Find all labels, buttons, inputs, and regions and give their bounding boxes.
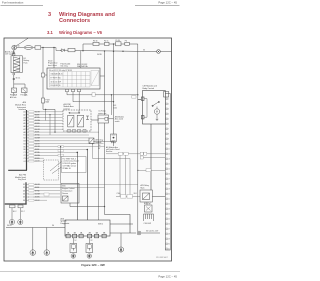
svg-text:box & front: box & front xyxy=(48,64,57,67)
wire xyxy=(109,43,116,45)
svg-text:30 WH: 30 WH xyxy=(35,155,41,157)
svg-text:motor unit: motor unit xyxy=(98,112,106,115)
svg-text:Page 12C – 45: Page 12C – 45 xyxy=(158,1,177,5)
wire code labels mid xyxy=(92,93,136,99)
relay A29b box right xyxy=(140,190,165,202)
wire C10 to ground xyxy=(11,208,13,220)
ground G12 xyxy=(30,250,36,256)
wire F30 down xyxy=(13,93,15,97)
svg-text:B4: B4 xyxy=(24,143,26,145)
wire relay to B20 xyxy=(146,202,148,205)
svg-text:link relay: link relay xyxy=(61,66,68,68)
A14 lower bus xyxy=(5,182,27,204)
svg-text:B6: B6 xyxy=(24,149,26,151)
svg-text:A14 link: A14 link xyxy=(10,96,16,99)
fuse F101 xyxy=(35,46,41,49)
svg-text:10: 10 xyxy=(168,144,170,146)
wire branch to F31 xyxy=(14,84,25,88)
connector strip X1 xyxy=(164,92,171,251)
wire module bottom down xyxy=(150,124,152,190)
row code labels right xyxy=(99,145,101,150)
X100 inner top row text xyxy=(49,69,72,87)
footer rule xyxy=(0,270,180,272)
header left rule xyxy=(1,4,44,6)
svg-text:C100 4W: C100 4W xyxy=(144,223,152,225)
svg-text:B1: B1 xyxy=(24,135,26,137)
ground G10 xyxy=(9,219,14,224)
connector C1 circle xyxy=(13,78,15,80)
riser row step x50 xyxy=(46,109,50,135)
A14 module bus bar xyxy=(8,110,27,170)
wire riser to upper fuse row xyxy=(83,44,93,51)
svg-text:IP MAL 30: IP MAL 30 xyxy=(63,167,71,170)
svg-text:26: 26 xyxy=(168,224,170,226)
node J4 xyxy=(113,44,114,45)
svg-text:C3: C3 xyxy=(23,158,25,160)
battery top terminal circle xyxy=(13,52,15,54)
X100 relay sub box xyxy=(91,71,99,86)
fusible link F100 oval xyxy=(24,46,33,50)
svg-text:87: 87 xyxy=(99,148,101,150)
motor wire xyxy=(156,107,158,117)
svg-text:C1: C1 xyxy=(23,152,25,154)
svg-text:15A 30A 10A 15: 15A 30A 10A 15 xyxy=(51,73,63,76)
spark component E2 xyxy=(86,244,93,253)
svg-text:30 15 10 7A F: 30 15 10 7A F xyxy=(51,80,62,83)
svg-text:15: 15 xyxy=(168,169,170,171)
svg-text:30 RD: 30 RD xyxy=(97,54,103,56)
row pin numbers left xyxy=(23,111,25,163)
ground G11 xyxy=(18,219,23,224)
A14 pin rows xyxy=(27,112,105,161)
svg-text:30 B+: 30 B+ xyxy=(7,225,12,227)
wire drop to ground G13 xyxy=(46,228,48,250)
svg-text:Diagnostic: Diagnostic xyxy=(61,222,70,225)
wire pump right to bus xyxy=(109,118,114,120)
svg-text:30 WH: 30 WH xyxy=(35,120,41,122)
svg-text:3.1: 3.1 xyxy=(47,30,53,35)
relay K2 xyxy=(77,115,83,127)
wire X100 pin1 to C/E bus xyxy=(67,92,138,95)
fuse F106 xyxy=(125,42,130,45)
A16 ECM label xyxy=(64,103,74,110)
wire top bus y47.5 xyxy=(41,47,56,49)
B16 element xyxy=(63,196,69,201)
note box xyxy=(62,157,87,173)
wire connector row y170 xyxy=(137,170,165,171)
svg-text:D5: D5 xyxy=(23,197,25,199)
battery B1 element xyxy=(14,57,20,72)
wire ECM right to pump xyxy=(91,119,99,121)
battery negative terminal circle xyxy=(13,73,15,75)
connector box C11 xyxy=(18,205,23,208)
wire xyxy=(121,43,125,45)
spark wire labels xyxy=(75,240,94,242)
wire xyxy=(99,43,105,45)
header right rule xyxy=(135,4,180,6)
X100 left connector pin xyxy=(41,73,47,77)
svg-text:23: 23 xyxy=(168,209,170,211)
battery B1 box xyxy=(11,56,22,73)
ignition module A16 box xyxy=(65,123,133,238)
C/E module label xyxy=(143,85,157,90)
svg-text:22: 22 xyxy=(168,204,170,206)
C/E module box xyxy=(138,91,166,191)
svg-text:19: 19 xyxy=(168,189,170,191)
wire drop to ground G16 xyxy=(120,233,122,247)
wire X100 pin3 down xyxy=(78,92,80,110)
svg-text:B2: B2 xyxy=(24,138,26,140)
ground G16 xyxy=(118,247,123,252)
relay contact inside xyxy=(153,102,159,106)
svg-text:B3: B3 xyxy=(24,141,26,143)
B16 sensor label xyxy=(62,186,75,195)
wire link to F101 xyxy=(33,47,35,49)
svg-text:C2: C2 xyxy=(23,155,25,157)
ignition label xyxy=(61,217,107,234)
note leader box dashed xyxy=(44,160,62,180)
node J2 xyxy=(54,47,55,48)
svg-text:F31 15A: F31 15A xyxy=(21,94,29,97)
wire route from row B4 to relay xyxy=(93,144,131,197)
svg-text:16: 16 xyxy=(168,174,170,176)
note leader lines xyxy=(50,162,62,174)
lower row pin numbers and codes xyxy=(23,184,41,202)
svg-text:Fuel examination: Fuel examination xyxy=(2,1,24,5)
engine fuse box X100 xyxy=(47,68,100,89)
svg-text:D6: D6 xyxy=(23,200,25,202)
A14 module label xyxy=(15,101,26,111)
svg-text:IGN 1: IGN 1 xyxy=(98,224,103,226)
ground G14 under E1 xyxy=(71,254,75,258)
connector pin left 1 xyxy=(141,97,144,100)
motor M1 xyxy=(154,109,159,114)
generator G1 circle xyxy=(12,45,17,50)
svg-text:C4: C4 xyxy=(23,161,25,163)
note text xyxy=(63,158,79,170)
svg-text:11: 11 xyxy=(168,149,170,151)
wire drop to ground G12 xyxy=(32,228,34,250)
riser x54 into X100 top xyxy=(53,48,55,69)
connector box C10 xyxy=(10,205,15,208)
lower pin rows xyxy=(27,184,138,200)
diode D2 xyxy=(86,116,89,120)
fuse F31 box xyxy=(22,88,28,93)
ECM bottom pin boxes xyxy=(68,130,71,133)
svg-text:D1: D1 xyxy=(23,184,25,186)
svg-text:B5: B5 xyxy=(24,146,26,148)
svg-text:30: 30 xyxy=(143,50,145,52)
ground G13 xyxy=(44,250,50,256)
svg-text:C100: C100 xyxy=(117,193,121,195)
svg-text:D3: D3 xyxy=(23,190,25,192)
svg-text:17: 17 xyxy=(168,179,170,181)
svg-text:Main: Main xyxy=(141,188,145,190)
svg-text:F7 F8 F9 F10: F7 F8 F9 F10 xyxy=(51,77,61,79)
diode D1 xyxy=(62,49,65,52)
fuel pump C5 box xyxy=(98,115,114,215)
relay A29 small box xyxy=(89,138,94,144)
svg-text:30 Cab B+ 12V: 30 Cab B+ 12V xyxy=(146,231,159,233)
ground G15 under E2 xyxy=(87,254,91,258)
svg-text:28: 28 xyxy=(168,234,170,236)
svg-text:30 F: 30 F xyxy=(134,193,137,195)
internal top wire xyxy=(70,110,80,113)
A29 label xyxy=(96,139,104,144)
wire battery down xyxy=(13,75,15,88)
svg-text:31: 31 xyxy=(168,249,170,251)
svg-text:13: 13 xyxy=(168,159,170,161)
wires into top xyxy=(77,150,87,221)
svg-text:12V supply: 12V supply xyxy=(5,54,14,56)
svg-text:29: 29 xyxy=(168,239,170,241)
svg-text:Connectors: Connectors xyxy=(59,18,90,24)
comb connector xyxy=(144,214,154,221)
B16 sensor box xyxy=(60,146,104,206)
battery B1 supply drop xyxy=(13,50,15,54)
svg-text:20: 20 xyxy=(168,194,170,196)
svg-text:12C-3W 5007: 12C-3W 5007 xyxy=(156,257,168,259)
battery B1 terminal xyxy=(13,54,15,56)
svg-text:Sensor: Sensor xyxy=(62,193,68,195)
svg-text:30: 30 xyxy=(168,244,170,246)
svg-text:Figure 12C – 3W: Figure 12C – 3W xyxy=(81,263,105,267)
wire A29a output xyxy=(93,140,113,142)
wire corner drop to main bus xyxy=(129,44,138,51)
svg-text:B20 Cpl: B20 Cpl xyxy=(144,203,151,205)
fuse F104 xyxy=(105,42,110,45)
wire main horizontal to right edge xyxy=(75,50,157,53)
svg-text:Wiring Diagrams – V6: Wiring Diagrams – V6 xyxy=(59,30,103,35)
svg-text:25: 25 xyxy=(168,219,170,221)
right vertical bus x104.5 xyxy=(100,44,138,231)
wire drop from top wire into X100 xyxy=(80,51,82,68)
relay K1 xyxy=(68,115,74,127)
fuse F109 vertical on riser x43 xyxy=(42,48,44,99)
labels beside ground wires xyxy=(13,211,26,213)
wire C11 to ground xyxy=(19,208,21,220)
wire segment mid xyxy=(56,48,61,51)
wire X100 pin2 run xyxy=(73,92,114,102)
sensor B22 on bus xyxy=(111,134,117,143)
svg-text:30A 15A 10A: 30A 15A 10A xyxy=(77,65,88,68)
svg-text:30 WH: 30 WH xyxy=(35,138,41,140)
wire pump bottom down xyxy=(104,123,106,215)
svg-text:27: 27 xyxy=(168,229,170,231)
tiny text battery labels xyxy=(5,50,50,103)
connector pin left 2 xyxy=(141,116,144,119)
svg-text:switch: switch xyxy=(115,120,120,123)
node J7 xyxy=(104,206,105,207)
wire B16 bottom to bus xyxy=(70,203,105,207)
svg-text:Interface: Interface xyxy=(19,108,26,111)
svg-text:D4: D4 xyxy=(23,194,25,196)
wire diagonal from G1 to top edge xyxy=(16,38,28,46)
wire F31 down xyxy=(24,93,26,97)
row labels xyxy=(29,111,64,162)
pins bottom xyxy=(66,234,70,238)
fuse F102 xyxy=(68,48,75,51)
svg-text:Eng Fuse: Eng Fuse xyxy=(18,179,26,181)
fuel pump C5 label xyxy=(98,111,106,115)
fuse F103 xyxy=(93,42,99,45)
wire drop to pump top right xyxy=(110,95,112,115)
svg-text:Body Control: Body Control xyxy=(143,87,155,90)
left connector boxes bottom xyxy=(9,205,23,225)
svg-text:30 WH: 30 WH xyxy=(35,194,41,196)
wire row y153.8 connector codes xyxy=(106,154,165,158)
wire from bus to module pin xyxy=(138,99,142,101)
svg-text:30: 30 xyxy=(52,225,54,227)
spark component E1 xyxy=(70,238,93,258)
svg-text:12: 12 xyxy=(168,154,170,156)
svg-text:14: 14 xyxy=(168,164,170,166)
svg-text:30: 30 xyxy=(18,45,20,47)
wire relay row y196 xyxy=(92,143,140,196)
svg-text:D2: D2 xyxy=(23,187,25,189)
A16 ECM dashed box xyxy=(63,110,114,141)
svg-text:M: M xyxy=(156,111,158,114)
wire drop to B16 top xyxy=(60,147,62,184)
right vertical bus x115 xyxy=(113,44,115,146)
node J3 xyxy=(104,51,105,52)
connector label mid xyxy=(115,116,124,123)
svg-text:24: 24 xyxy=(168,214,170,216)
bottom right wire xyxy=(110,231,160,252)
splice S2 circled X xyxy=(137,231,141,235)
X100 label xyxy=(48,61,88,69)
row wire codes xyxy=(35,111,41,162)
svg-text:3: 3 xyxy=(48,12,51,18)
module internal wire xyxy=(144,99,147,118)
X100 bottom pins xyxy=(66,51,139,115)
svg-text:18: 18 xyxy=(168,184,170,186)
X100 inner table xyxy=(50,71,100,88)
figure frame xyxy=(4,38,172,261)
svg-text:30 C1: 30 C1 xyxy=(16,78,21,80)
B22 base comb xyxy=(111,142,116,144)
fuse F30 box xyxy=(12,88,17,93)
svg-text:21: 21 xyxy=(168,199,170,201)
right vertical bus x138 xyxy=(137,51,139,231)
fuse F105 xyxy=(116,42,122,46)
A14 PIM label block xyxy=(15,174,26,181)
wire G1 to fusible link xyxy=(17,47,25,49)
svg-text:30: 30 xyxy=(99,145,101,147)
splice node S1 circled X xyxy=(157,50,161,54)
arrow down symbol xyxy=(156,117,158,121)
svg-text:Pack: Pack xyxy=(24,62,28,64)
node J6 xyxy=(83,50,84,51)
bottom left wire xyxy=(6,228,65,256)
B20 component top right bottom xyxy=(144,205,154,221)
wire X100 right exit xyxy=(100,75,105,77)
node J1 xyxy=(43,47,44,48)
wire right side xyxy=(110,223,133,225)
B22 label block xyxy=(106,146,120,153)
node J5 xyxy=(123,51,124,52)
svg-text:Page 12C – 45: Page 12C – 45 xyxy=(158,275,177,279)
